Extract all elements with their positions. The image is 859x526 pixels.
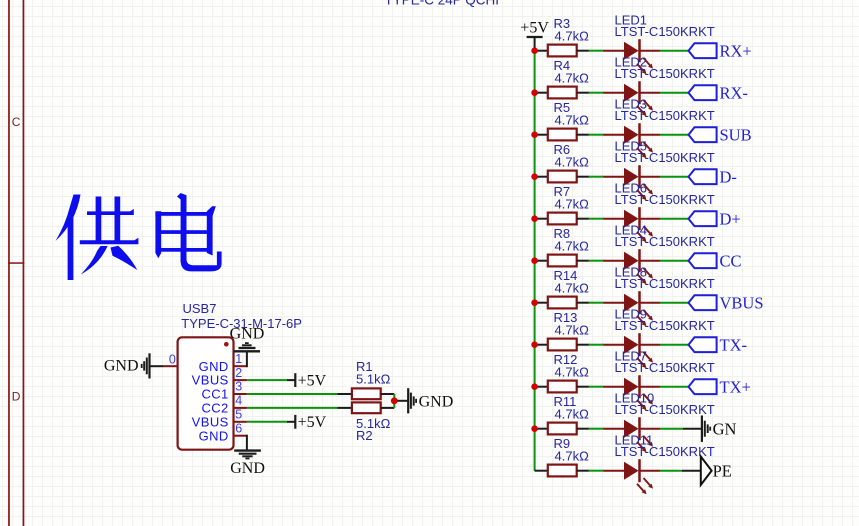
- svg-text:GND: GND: [230, 326, 265, 343]
- junction dot row 3: [531, 131, 538, 138]
- svg-text:GND: GND: [199, 428, 229, 443]
- svg-text:4.7kΩ: 4.7kΩ: [555, 196, 590, 211]
- LED LED2: [604, 81, 661, 116]
- svg-text:LTST-C150KRKT: LTST-C150KRKT: [615, 150, 715, 165]
- svg-text:GND: GND: [419, 393, 454, 410]
- svg-text:R2: R2: [356, 428, 373, 443]
- junction dot row 2: [531, 89, 538, 96]
- 电 stroke: box top horizontal: [155, 212, 212, 216]
- wire LED11 to PE symbol: [660, 470, 682, 472]
- svg-text:CC: CC: [720, 251, 742, 270]
- R14 lead right: [577, 302, 589, 304]
- svg-text:4.7kΩ: 4.7kΩ: [555, 70, 590, 85]
- 供 stroke: right vertical of gong: [115, 197, 121, 244]
- R11 lead right: [577, 428, 589, 430]
- wire R3 to LED1: [589, 50, 605, 52]
- port SUB: [689, 127, 717, 142]
- resistor R14: [548, 297, 577, 309]
- USB7 pin-1 marker dot: [224, 342, 229, 347]
- USB7 pin 6 stub: [234, 435, 247, 437]
- resistor R12: [548, 381, 577, 393]
- svg-text:PE: PE: [713, 461, 732, 480]
- wire LED6 to port D+: [660, 218, 689, 220]
- wire R9 to LED11: [589, 470, 605, 472]
- power port PE (open triangle): [701, 457, 712, 485]
- sheet border zone divider tick: [8, 262, 24, 264]
- resistor R2: [352, 402, 381, 413]
- svg-text:LTST-C150KRKT: LTST-C150KRKT: [615, 234, 715, 249]
- svg-text:4.7kΩ: 4.7kΩ: [555, 322, 590, 337]
- port RX+: [689, 43, 717, 58]
- R9 lead right: [577, 470, 589, 472]
- power port GN (bar style): [701, 416, 703, 442]
- svg-text:RX+: RX+: [720, 41, 752, 60]
- svg-text:4.7kΩ: 4.7kΩ: [555, 364, 590, 379]
- svg-text:+5V: +5V: [298, 414, 327, 431]
- R13 lead right: [577, 344, 589, 346]
- power port +5V (top of LED ladder): [534, 37, 536, 51]
- 电 stroke: box right vertical with top serif: [207, 206, 216, 255]
- power port +5V (bar, y=421.8): [294, 415, 296, 429]
- R4 lead right: [577, 92, 589, 94]
- svg-text:D: D: [12, 390, 21, 404]
- 供 stroke: upper horizontal: [87, 209, 134, 215]
- LED LED1: [604, 39, 661, 74]
- svg-text:4.7kΩ: 4.7kΩ: [555, 238, 590, 253]
- resistor R13: [548, 339, 577, 351]
- 供 stroke: bottom-right dian: [111, 246, 138, 270]
- resistor R4: [548, 87, 577, 99]
- wire LED2 to port RX-: [660, 92, 689, 94]
- connector USB7 body: [178, 337, 234, 449]
- svg-text:4.7kΩ: 4.7kΩ: [555, 448, 590, 463]
- svg-text:D-: D-: [720, 167, 737, 186]
- R2 lead right: [381, 407, 395, 409]
- wire R4 to LED2: [589, 92, 605, 94]
- wire R7 to LED6: [589, 218, 605, 220]
- wire R11 to LED10: [589, 428, 605, 430]
- LED LED3: [604, 123, 661, 158]
- wire R12 to LED7: [589, 386, 605, 388]
- port VBUS: [689, 295, 717, 310]
- svg-text:GND: GND: [104, 358, 139, 375]
- svg-text:LTST-C150KRKT: LTST-C150KRKT: [615, 108, 715, 123]
- wire junction to GND stub: [394, 400, 407, 402]
- svg-text:VBUS: VBUS: [720, 293, 764, 312]
- junction dot at R1/R2/GND: [391, 397, 398, 404]
- resistor R6: [548, 171, 577, 183]
- power port GND (right of R1/R2, bar style): [407, 388, 409, 413]
- svg-text:LTST-C150KRKT: LTST-C150KRKT: [615, 444, 715, 459]
- power port GND (left of USB7, bar style): [148, 353, 150, 378]
- LED LED10: [604, 417, 661, 452]
- svg-text:CC1: CC1: [201, 387, 228, 402]
- wire R13 to LED9: [589, 344, 605, 346]
- power port +5V (bar, y=380.1): [294, 373, 296, 387]
- svg-text:5.1kΩ: 5.1kΩ: [356, 372, 391, 387]
- wire pin to +5V (y=380.1): [247, 379, 287, 381]
- svg-text:GND: GND: [199, 359, 229, 374]
- CJK title 供电 (gong) stroke: left-falling pie of ren radical: [56, 195, 81, 242]
- port CC: [689, 253, 717, 268]
- resistor R5: [548, 129, 577, 141]
- svg-text:4.7kΩ: 4.7kΩ: [555, 112, 590, 127]
- power port GND (below USB7, earth style): [234, 449, 261, 451]
- 电 stroke: box middle horizontal: [158, 230, 209, 234]
- LED LED11: [604, 459, 661, 494]
- R6 lead right: [577, 176, 589, 178]
- svg-text:RX-: RX-: [720, 83, 748, 102]
- R8 lead right: [577, 260, 589, 262]
- svg-text:+5V: +5V: [298, 373, 327, 390]
- wire pin to +5V (y=421.8): [247, 421, 287, 423]
- wire joining R1 and R2 right ends: [393, 394, 395, 408]
- USB7 pin 2 stub: [234, 379, 247, 381]
- wire rail to R13: [535, 344, 548, 346]
- power port GND (above USB7, earth style): [234, 350, 260, 352]
- USB7 pin 4 stub: [234, 407, 247, 409]
- LED LED7: [604, 375, 661, 410]
- wire rail to R14: [535, 302, 548, 304]
- R12 lead right: [577, 386, 589, 388]
- junction dot row 1: [531, 47, 538, 54]
- resistor R9: [548, 465, 577, 477]
- svg-text:6: 6: [235, 421, 242, 435]
- svg-text:USB7: USB7: [183, 301, 217, 316]
- wire LED4 to port CC: [660, 260, 689, 262]
- svg-text:LTST-C150KRKT: LTST-C150KRKT: [615, 192, 715, 207]
- resistor R7: [548, 213, 577, 225]
- wire LED7 to port TX+: [660, 386, 689, 388]
- wire rail to R6: [535, 176, 548, 178]
- wire LED9 to port TX-: [660, 344, 689, 346]
- sheet border outer vertical line: [23, 0, 25, 526]
- svg-text:LTST-C150KRKT: LTST-C150KRKT: [615, 276, 715, 291]
- 供 stroke: bottom-left pie: [81, 246, 108, 275]
- 供 stroke: vertical of ren radical: [68, 214, 74, 281]
- R5 lead right: [577, 134, 589, 136]
- junction dot row 9: [531, 383, 538, 390]
- svg-text:LTST-C150KRKT: LTST-C150KRKT: [615, 360, 715, 375]
- wire LED10 to GN symbol: [660, 428, 683, 430]
- +5V rail vertical wire: [534, 51, 536, 471]
- 供 stroke: lower horizontal: [80, 238, 139, 245]
- wire pin 6 down to GND earth symbol: [246, 435, 248, 451]
- R7 lead right: [577, 218, 589, 220]
- junction dot row 5: [531, 215, 538, 222]
- wire LED8 to port VBUS: [660, 302, 689, 304]
- LED LED5: [604, 165, 661, 200]
- svg-text:3: 3: [235, 380, 242, 394]
- svg-text:+5V: +5V: [520, 20, 549, 37]
- 电 stroke: box bottom horizontal: [158, 248, 209, 252]
- wire LED3 to port SUB: [660, 134, 689, 136]
- junction dot row 8: [531, 341, 538, 348]
- svg-text:SUB: SUB: [720, 125, 752, 144]
- resistor R8: [548, 255, 577, 267]
- LED LED9: [604, 333, 661, 368]
- resistor R1: [352, 388, 381, 399]
- svg-text:VBUS: VBUS: [192, 373, 229, 388]
- wire pin 1 up to GND earth symbol: [246, 352, 248, 367]
- 电 stroke: bottom hook: [181, 250, 222, 271]
- R3 lead right: [577, 50, 589, 52]
- port RX-: [689, 85, 717, 100]
- junction dot row 6: [531, 257, 538, 264]
- R1 lead right: [381, 393, 395, 395]
- svg-text:LTST-C150KRKT: LTST-C150KRKT: [615, 402, 715, 417]
- wire rail to R8: [535, 260, 548, 262]
- wire rail to R7: [535, 218, 548, 220]
- resistor R11: [548, 423, 577, 435]
- svg-text:GND: GND: [230, 460, 265, 477]
- port D-: [689, 169, 717, 184]
- wire pin 3 (CC1) to R1: [247, 393, 338, 395]
- CJK 电 stroke: central vertical: [177, 193, 187, 262]
- svg-text:LTST-C150KRKT: LTST-C150KRKT: [615, 66, 715, 81]
- port TX+: [689, 379, 717, 394]
- LED LED6: [604, 207, 661, 242]
- svg-text:GN: GN: [713, 419, 737, 438]
- svg-text:4: 4: [235, 394, 242, 408]
- wire LED5 to port D-: [660, 176, 689, 178]
- svg-text:C: C: [12, 115, 21, 129]
- wire rail to R11: [535, 428, 548, 430]
- svg-text:5: 5: [235, 408, 242, 422]
- svg-text:CC2: CC2: [201, 401, 228, 416]
- port D+: [689, 211, 717, 226]
- wire rail to R3: [535, 50, 548, 52]
- junction dot row 4: [531, 173, 538, 180]
- svg-text:4.7kΩ: 4.7kΩ: [555, 406, 590, 421]
- USB7 pin 1 stub: [234, 365, 247, 367]
- svg-text:4.7kΩ: 4.7kΩ: [555, 28, 590, 43]
- sheet border inner vertical line: [8, 0, 10, 526]
- svg-text:TYPE-C 24P QCHI: TYPE-C 24P QCHI: [385, 0, 500, 8]
- junction dot row 7: [531, 299, 538, 306]
- wire from left GND symbol to pin 0: [150, 365, 164, 367]
- wire rail to R9: [535, 470, 548, 472]
- USB7 pin 5 stub: [234, 421, 247, 423]
- resistor R3: [548, 45, 577, 57]
- 电 stroke: box left vertical: [155, 211, 161, 258]
- wire R14 to LED8: [589, 302, 605, 304]
- svg-text:VBUS: VBUS: [192, 414, 229, 429]
- svg-text:TX-: TX-: [720, 335, 748, 354]
- 供 stroke: left vertical of gong: [96, 197, 102, 244]
- wire pin 4 (CC2) to R2: [247, 407, 338, 409]
- USB7 pin 3 stub: [234, 393, 247, 395]
- svg-text:D+: D+: [720, 209, 741, 228]
- svg-text:TX+: TX+: [720, 377, 751, 396]
- wire rail to R12: [535, 386, 548, 388]
- wire R5 to LED3: [589, 134, 605, 136]
- svg-text:4.7kΩ: 4.7kΩ: [555, 154, 590, 169]
- svg-text:LTST-C150KRKT: LTST-C150KRKT: [615, 318, 715, 333]
- svg-text:2: 2: [235, 366, 242, 380]
- LED LED4: [604, 249, 661, 284]
- wire R6 to LED5: [589, 176, 605, 178]
- port TX-: [689, 337, 717, 352]
- svg-text:1: 1: [235, 352, 242, 366]
- wire LED1 to port RX+: [660, 50, 689, 52]
- svg-text:0: 0: [169, 353, 176, 367]
- USB7 pin 0 stub: [164, 365, 178, 367]
- LED LED8: [604, 291, 661, 326]
- wire rail to R4: [535, 92, 548, 94]
- svg-text:4.7kΩ: 4.7kΩ: [555, 280, 590, 295]
- wire rail to R5: [535, 134, 548, 136]
- junction dot row 10: [531, 425, 538, 432]
- wire R8 to LED4: [589, 260, 605, 262]
- svg-text:LTST-C150KRKT: LTST-C150KRKT: [615, 24, 715, 39]
